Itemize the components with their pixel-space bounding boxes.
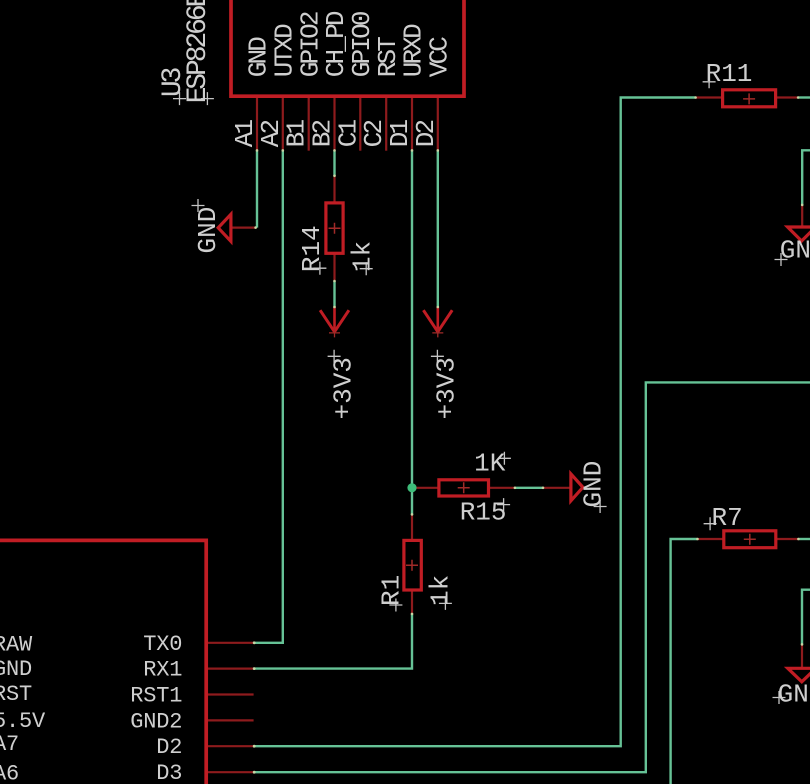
svg-text:R11: R11 (706, 59, 753, 89)
svg-text:5.5V: 5.5V (0, 709, 46, 734)
svg-text:D2: D2 (156, 735, 182, 760)
svg-text:R15: R15 (460, 498, 507, 528)
svg-text:A7: A7 (0, 732, 19, 757)
svg-text:GND: GND (579, 461, 609, 508)
svg-text:RST1: RST1 (130, 684, 182, 709)
svg-text:GND: GND (778, 680, 810, 710)
svg-text:1K: 1K (474, 448, 506, 478)
svg-text:RX1: RX1 (143, 658, 182, 683)
svg-text:+3V3: +3V3 (328, 357, 358, 419)
svg-text:D2: D2 (411, 120, 441, 147)
svg-text:GND: GND (780, 236, 810, 266)
svg-text:VCC: VCC (424, 37, 454, 78)
svg-text:A6: A6 (0, 761, 19, 784)
svg-text:R1: R1 (377, 575, 407, 606)
svg-text:RST: RST (0, 682, 32, 707)
svg-text:RAW: RAW (0, 633, 33, 658)
svg-text:TX0: TX0 (143, 632, 182, 657)
svg-text:R14: R14 (297, 225, 327, 272)
svg-text:GND: GND (0, 657, 32, 682)
svg-text:R7: R7 (712, 503, 743, 533)
svg-text:1k: 1k (425, 575, 455, 606)
svg-text:ESP8266EX: ESP8266EX (183, 0, 214, 103)
svg-text:GND: GND (193, 207, 223, 254)
svg-text:+3V3: +3V3 (432, 357, 462, 419)
svg-text:1k: 1k (347, 241, 377, 272)
svg-text:GND2: GND2 (130, 709, 182, 734)
svg-text:D3: D3 (156, 761, 182, 784)
